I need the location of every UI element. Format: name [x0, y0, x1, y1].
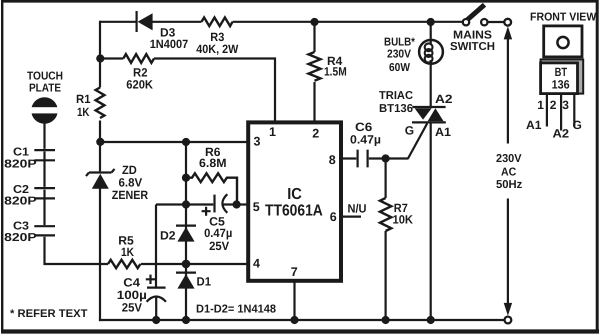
- IC U1 TT6061A: [248, 122, 341, 280]
- resistor R1: [76, 88, 104, 120]
- svg-text:8: 8: [329, 153, 336, 167]
- wire bottom rail: [99, 319, 504, 321]
- node R7 bottom: [382, 316, 390, 324]
- resistor R7: [380, 159, 413, 322]
- package pin 3: [573, 95, 575, 127]
- svg-text:PLATE: PLATE: [29, 83, 61, 95]
- svg-text:MAINS: MAINS: [453, 30, 492, 42]
- svg-text:1.5M: 1.5M: [324, 64, 347, 78]
- svg-text:D2: D2: [160, 229, 176, 243]
- wire left column: [99, 21, 101, 321]
- svg-text:2: 2: [312, 127, 319, 141]
- svg-text:* REFER TEXT: * REFER TEXT: [10, 308, 88, 320]
- svg-text:D1: D1: [197, 274, 212, 288]
- node C5 left junction: [182, 200, 190, 208]
- svg-text:AC: AC: [501, 166, 516, 178]
- wire pin4 row: [141, 263, 247, 265]
- svg-text:10K: 10K: [393, 213, 414, 227]
- capacitor C1: [4, 147, 55, 171]
- node C5 right junction: [233, 200, 241, 208]
- diode D1: [176, 273, 211, 289]
- BT136 package front view: [526, 26, 583, 140]
- svg-text:1: 1: [537, 98, 544, 112]
- svg-text:0.47µ: 0.47µ: [204, 226, 232, 240]
- svg-text:820P: 820P: [4, 159, 37, 171]
- wire touch plate column: [45, 124, 109, 265]
- svg-text:A2: A2: [435, 92, 453, 106]
- svg-text:C2: C2: [13, 184, 29, 196]
- resistor R4: [309, 22, 347, 121]
- svg-text:40K, 2W: 40K, 2W: [196, 42, 239, 56]
- package pin 1: [546, 95, 548, 127]
- svg-text:620K: 620K: [126, 78, 153, 92]
- svg-text:N/U: N/U: [348, 201, 367, 215]
- svg-text:A1: A1: [526, 118, 542, 132]
- svg-text:ZENER: ZENER: [112, 188, 149, 202]
- node triac A1 bottom: [427, 316, 435, 324]
- svg-text:4: 4: [253, 257, 260, 271]
- svg-text:230V: 230V: [496, 153, 522, 165]
- svg-text:A2: A2: [553, 126, 570, 140]
- resistor R3: [196, 18, 239, 56]
- resistor R5: [108, 233, 140, 268]
- wire C4 column: [155, 205, 157, 322]
- pin 6 stub N/U: [343, 201, 367, 216]
- node D1 bottom: [182, 316, 190, 324]
- svg-text:1: 1: [269, 125, 276, 139]
- svg-text:C3: C3: [13, 221, 29, 233]
- svg-text:0.47µ: 0.47µ: [350, 133, 381, 147]
- svg-text:230V: 230V: [387, 49, 411, 61]
- node gate junction: [382, 154, 390, 162]
- capacitor C2: [4, 184, 55, 208]
- node R1 bottom junction: [96, 138, 104, 146]
- svg-text:2: 2: [550, 98, 557, 112]
- wire D1-D2 column: [185, 142, 187, 321]
- wire pin8 row: [343, 157, 409, 159]
- diode D2: [160, 226, 196, 243]
- svg-text:D1-D2= 1N4148: D1-D2= 1N4148: [196, 303, 277, 315]
- node pin3/R6 junction: [182, 138, 190, 146]
- svg-text:3: 3: [254, 135, 261, 149]
- capacitor C4: [117, 275, 166, 315]
- svg-text:R1: R1: [76, 92, 91, 106]
- node bulb top: [427, 18, 435, 26]
- wire C5 row: [156, 203, 247, 205]
- svg-text:IC: IC: [287, 186, 302, 203]
- capacitor C5: [202, 194, 233, 253]
- svg-text:A1: A1: [435, 125, 451, 139]
- svg-text:820P: 820P: [4, 232, 37, 244]
- svg-text:60W: 60W: [389, 62, 410, 74]
- svg-text:G: G: [405, 123, 414, 137]
- zener ZD: [86, 163, 148, 202]
- resistor R6: [186, 145, 237, 205]
- node C4 bottom: [152, 316, 160, 324]
- diode D3: [137, 11, 189, 51]
- wire bulb column: [430, 22, 432, 321]
- svg-text:BULB*: BULB*: [384, 36, 415, 48]
- svg-text:1K: 1K: [77, 105, 90, 119]
- capacitor C3: [4, 221, 55, 245]
- wire gate diagonal: [408, 123, 427, 158]
- resistor R2: [123, 54, 154, 92]
- svg-text:TT6061A: TT6061A: [265, 203, 323, 220]
- svg-text:136: 136: [552, 78, 570, 92]
- mains input arrow bottom: [504, 199, 512, 324]
- triac BT136: [379, 90, 453, 139]
- svg-text:G: G: [573, 118, 582, 132]
- border frame: [1, 0, 598, 3]
- svg-text:FRONT VIEW: FRONT VIEW: [530, 12, 596, 24]
- svg-text:SWITCH: SWITCH: [450, 41, 495, 53]
- mains input arrow top: [504, 26, 512, 143]
- svg-text:25V: 25V: [122, 301, 142, 315]
- svg-text:1N4007: 1N4007: [150, 37, 189, 51]
- svg-text:BT136: BT136: [379, 103, 413, 115]
- svg-text:6.8M: 6.8M: [199, 156, 227, 170]
- node R2 junction: [96, 54, 104, 62]
- label 230V AC 50Hz: [496, 153, 523, 191]
- svg-text:25V: 25V: [209, 239, 229, 253]
- mains switch S1: [450, 5, 511, 53]
- bulb B1: [384, 36, 443, 74]
- svg-text:TOUCH: TOUCH: [27, 71, 63, 83]
- node R6 left junction: [182, 174, 190, 182]
- svg-text:5: 5: [253, 200, 260, 214]
- svg-text:C1: C1: [13, 147, 30, 159]
- svg-text:7: 7: [291, 265, 298, 279]
- node pin4 junction: [182, 260, 191, 269]
- svg-text:1K: 1K: [121, 245, 134, 259]
- svg-text:6: 6: [330, 210, 337, 224]
- svg-text:50Hz: 50Hz: [496, 179, 523, 191]
- node pin7 bottom: [290, 316, 298, 324]
- wire pin3 row: [100, 141, 247, 143]
- node R4 top: [310, 18, 318, 26]
- capacitor C6: [350, 120, 381, 167]
- package pin 2: [560, 95, 562, 131]
- svg-text:820P: 820P: [4, 196, 37, 208]
- wire pin7 column: [293, 281, 295, 321]
- wire R2 row: [100, 59, 275, 121]
- touch plate: [27, 71, 63, 124]
- svg-text:3: 3: [562, 98, 569, 112]
- svg-text:TRIAC: TRIAC: [379, 90, 413, 102]
- wire top rail: [100, 21, 504, 23]
